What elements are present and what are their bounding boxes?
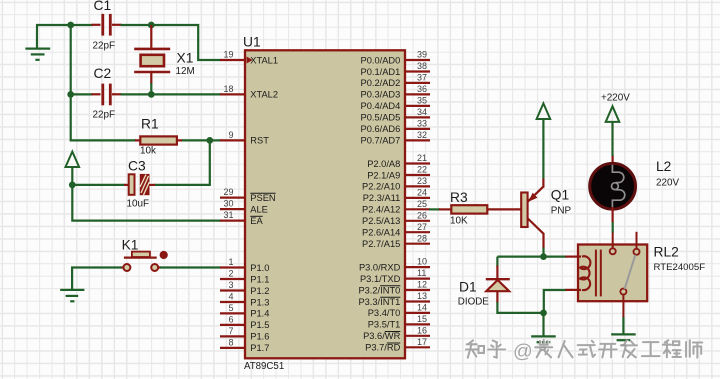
svg-text:36: 36	[417, 84, 427, 94]
node junction C1-left column	[67, 22, 74, 29]
svg-text:1: 1	[228, 257, 233, 267]
svg-text:31: 31	[223, 210, 233, 220]
svg-text:P2.6/A14: P2.6/A14	[362, 228, 400, 238]
pin 26 P2.5/A13 (right)	[362, 210, 430, 226]
wire relay switch to ground	[622, 317, 624, 335]
svg-text:16: 16	[417, 325, 427, 335]
wire ground to K1	[72, 268, 121, 291]
pin 31 EA (left)	[220, 210, 264, 226]
ground (transistor net)	[531, 336, 556, 347]
pin 22 P2.1/A9 (right)	[367, 165, 430, 181]
svg-text:EA: EA	[250, 216, 263, 226]
svg-text:30: 30	[223, 199, 233, 209]
svg-text:22: 22	[417, 165, 427, 175]
pin 10 P3.0/RXD (right)	[359, 257, 430, 273]
svg-text:21: 21	[417, 153, 427, 163]
svg-text:10: 10	[417, 257, 427, 267]
pin 12 P3.2/INT0 (right)	[358, 280, 430, 296]
pin 9 RST (left)	[220, 130, 269, 146]
svg-text:+220V: +220V	[601, 92, 630, 103]
pin 27 P2.6/A14 (right)	[362, 222, 430, 238]
svg-text:P2.3/A11: P2.3/A11	[363, 193, 401, 203]
svg-text:7: 7	[228, 326, 233, 336]
node junction collector/diode/coil	[540, 253, 547, 260]
ground (below K1)	[60, 290, 84, 301]
wire node to XTAL1 pin 19	[151, 25, 221, 60]
svg-text:10k: 10k	[140, 146, 156, 157]
pin 6 P1.5 (left)	[220, 315, 269, 331]
power arrow +220V	[601, 92, 630, 156]
svg-text:3: 3	[228, 280, 233, 290]
pin 15 P3.5/T1 (right)	[368, 314, 430, 330]
svg-text:5: 5	[228, 303, 233, 313]
svg-text:P0.4/AD4: P0.4/AD4	[361, 101, 401, 111]
svg-text:U1: U1	[243, 34, 261, 49]
wire relay coil bottom down to node	[544, 290, 567, 313]
svg-text:12: 12	[417, 280, 427, 290]
svg-text:32: 32	[417, 130, 427, 140]
svg-text:38: 38	[417, 61, 427, 71]
pin 4 P1.3 (left)	[220, 292, 269, 308]
svg-text:DIODE: DIODE	[458, 296, 489, 307]
svg-text:17: 17	[417, 337, 427, 347]
svg-text:P0.2/AD2: P0.2/AD2	[361, 78, 401, 88]
pin 24 P2.3/A11 (right)	[363, 188, 430, 204]
svg-text:P1.1: P1.1	[250, 274, 269, 284]
wire node to ground	[542, 313, 544, 336]
svg-text:P1.7: P1.7	[250, 343, 269, 353]
pin 34 P0.5/AD5 (right)	[361, 107, 430, 123]
ground (relay switch)	[611, 334, 636, 345]
wire RST node down to C3	[154, 140, 210, 185]
wire node to D1 and relay coil top	[497, 256, 566, 258]
transistor Q1 PNP	[521, 178, 571, 249]
capacitor C2	[92, 66, 122, 121]
pin 36 P0.3/AD3 (right)	[361, 84, 430, 100]
pin 23 P2.2/A10 (right)	[362, 176, 430, 192]
pin 25 P2.4/A12 (right)	[362, 199, 430, 215]
node junction C1/X1	[148, 22, 155, 29]
svg-text:P1.5: P1.5	[250, 320, 269, 330]
svg-text:18: 18	[223, 84, 233, 94]
svg-text:P2.1/A9: P2.1/A9	[367, 170, 400, 180]
pin 8 P1.7 (left)	[220, 338, 269, 354]
svg-text:P1.3: P1.3	[250, 297, 269, 307]
resistor R1	[135, 117, 183, 157]
svg-text:15: 15	[417, 314, 427, 324]
svg-text:P3.7/RD: P3.7/RD	[365, 343, 400, 353]
wire C2 row left	[70, 93, 93, 95]
wire ground to C1	[36, 24, 93, 26]
wire pin 25 to R3	[429, 208, 440, 210]
key K1 (push button)	[121, 238, 168, 272]
svg-text:K1: K1	[122, 238, 139, 253]
svg-text:P3.1/TXD: P3.1/TXD	[360, 274, 401, 284]
wire C3 node down to EA pin 31	[72, 185, 221, 221]
svg-text:10uF: 10uF	[127, 199, 150, 210]
svg-text:22pF: 22pF	[93, 110, 116, 121]
svg-text:P3.6/WR: P3.6/WR	[363, 331, 400, 341]
svg-text:XTAL1: XTAL1	[250, 55, 278, 65]
svg-text:P3.4/T0: P3.4/T0	[368, 308, 401, 318]
svg-text:29: 29	[223, 187, 233, 197]
pin 37 P0.2/AD2 (right)	[361, 73, 430, 89]
wire R1 to RST node	[182, 139, 211, 141]
svg-text:C3: C3	[128, 159, 146, 174]
watermark zhihu text	[466, 340, 702, 363]
svg-text:P1.4: P1.4	[250, 309, 269, 319]
svg-text:XTAL2: XTAL2	[250, 90, 278, 100]
node junction diode/coil/ground	[540, 310, 547, 317]
pin 14 P3.4/T0 (right)	[368, 303, 430, 319]
svg-text:@: @	[513, 341, 533, 363]
svg-text:P0.1/AD1: P0.1/AD1	[361, 67, 401, 77]
power arrow (Q1 emitter supply)	[537, 103, 551, 178]
pin 19 XTAL1 (left)	[220, 50, 278, 66]
svg-text:8: 8	[228, 338, 233, 348]
IC U1 AT89C51 body	[243, 34, 405, 372]
svg-text:PSEN: PSEN	[250, 193, 275, 203]
pin 33 P0.6/AD6 (right)	[361, 119, 430, 135]
svg-text:10K: 10K	[450, 215, 468, 226]
pin 3 P1.2 (left)	[220, 280, 269, 296]
svg-text:AT89C51: AT89C51	[244, 361, 284, 372]
crystal X1	[134, 25, 195, 84]
svg-text:6: 6	[228, 315, 233, 325]
pin 35 P0.4/AD4 (right)	[361, 96, 430, 112]
svg-text:35: 35	[417, 96, 427, 106]
svg-text:RL2: RL2	[654, 244, 679, 259]
svg-text:P1.0: P1.0	[250, 263, 269, 273]
lamp L2	[590, 155, 680, 223]
relay RL2	[566, 232, 706, 318]
node junction C2/X1 bottom	[148, 91, 155, 98]
pin 17 P3.7/RD (right)	[365, 337, 430, 353]
ground (top left)	[25, 25, 50, 60]
svg-text:P0.6/AD6: P0.6/AD6	[361, 124, 401, 134]
XTAL1 clock arrow	[247, 57, 253, 64]
svg-text:12M: 12M	[176, 66, 195, 77]
capacitor C3 (electrolytic)	[124, 159, 155, 210]
svg-text:33: 33	[417, 119, 427, 129]
svg-text:26: 26	[417, 210, 427, 220]
svg-text:R1: R1	[141, 117, 159, 132]
svg-text:28: 28	[417, 233, 427, 243]
pin 38 P0.1/AD1 (right)	[361, 61, 430, 77]
svg-text:ALE: ALE	[250, 204, 268, 214]
svg-text:P3.2/INT0: P3.2/INT0	[358, 285, 400, 295]
pin 30 ALE (left)	[220, 199, 268, 215]
svg-text:25: 25	[417, 199, 427, 209]
svg-text:PNP: PNP	[551, 205, 572, 216]
svg-text:Q1: Q1	[551, 188, 569, 203]
svg-text:24: 24	[417, 188, 427, 198]
svg-text:P3.3/INT1: P3.3/INT1	[358, 297, 400, 307]
pin 18 XTAL2 (left)	[220, 84, 278, 100]
svg-text:34: 34	[417, 107, 427, 117]
pin 21 P2.0/A8 (right)	[367, 153, 430, 169]
pin 13 P3.3/INT1 (right)	[358, 291, 430, 307]
pin 11 P3.1/TXD (right)	[360, 268, 430, 284]
svg-text:P2.4/A12: P2.4/A12	[362, 205, 400, 215]
wire lamp to relay contact	[612, 222, 614, 233]
svg-text:P0.5/AD5: P0.5/AD5	[361, 113, 401, 123]
svg-text:13: 13	[417, 291, 427, 301]
svg-text:D1: D1	[459, 279, 477, 294]
svg-text:P1.2: P1.2	[250, 286, 269, 296]
wire column down to RST row	[71, 94, 136, 140]
svg-text:2: 2	[228, 269, 233, 279]
svg-text:P0.7/AD7: P0.7/AD7	[361, 136, 401, 146]
pin 7 P1.6 (left)	[220, 326, 269, 342]
svg-text:P0.3/AD3: P0.3/AD3	[361, 90, 401, 100]
svg-text:23: 23	[417, 176, 427, 186]
node junction C3 left	[69, 182, 76, 189]
wire X1 to C2 row	[150, 83, 152, 95]
node junction RST	[206, 137, 213, 144]
pin 32 P0.7/AD7 (right)	[361, 130, 430, 146]
svg-text:P2.5/A13: P2.5/A13	[362, 216, 400, 226]
pin 16 P3.6/WR (right)	[363, 325, 430, 341]
svg-text:22pF: 22pF	[93, 40, 116, 51]
pin 2 P1.1 (left)	[220, 269, 269, 285]
svg-text:L2: L2	[656, 159, 671, 174]
svg-text:19: 19	[223, 50, 233, 60]
svg-text:11: 11	[417, 268, 426, 278]
svg-text:X1: X1	[177, 50, 194, 65]
svg-text:RTE24005F: RTE24005F	[654, 262, 706, 273]
svg-text:RST: RST	[250, 136, 269, 146]
resistor R3	[439, 190, 521, 227]
wire K1 to P1.0 pin 1	[160, 266, 221, 268]
svg-text:P2.7/A15: P2.7/A15	[362, 239, 400, 249]
svg-text:39: 39	[417, 50, 427, 60]
wire D1 to ground node	[497, 302, 544, 313]
svg-text:C2: C2	[94, 66, 112, 81]
svg-text:P1.6: P1.6	[250, 332, 269, 342]
pin 29 PSEN (left)	[220, 187, 276, 203]
wire node to RST pin 9	[210, 139, 221, 141]
svg-text:P3.5/T1: P3.5/T1	[368, 320, 401, 330]
svg-text:37: 37	[417, 73, 427, 83]
power arrow (VCC)	[66, 152, 80, 186]
pin 39 P0.0/AD0 (right)	[361, 50, 430, 66]
svg-text:P0.0/AD0: P0.0/AD0	[361, 55, 401, 65]
svg-text:R3: R3	[450, 190, 468, 205]
svg-text:4: 4	[228, 292, 233, 302]
svg-text:P2.2/A10: P2.2/A10	[362, 182, 400, 192]
diode D1	[458, 257, 510, 308]
svg-text:C1: C1	[94, 0, 112, 13]
wire C1 to node	[121, 24, 153, 26]
wire node to C3	[72, 184, 125, 186]
wire left vertical column	[70, 25, 72, 94]
svg-text:P3.0/RXD: P3.0/RXD	[359, 262, 401, 272]
svg-text:14: 14	[417, 303, 427, 313]
pin 1 P1.0 (left)	[220, 257, 269, 273]
wire Q1 collector down	[542, 248, 544, 258]
svg-text:9: 9	[228, 130, 233, 140]
wire C2 to XTAL2 pin 18	[121, 93, 222, 95]
node junction C2 left	[67, 91, 74, 98]
svg-text:P2.0/A8: P2.0/A8	[367, 159, 400, 169]
capacitor C1	[92, 0, 122, 51]
svg-text:27: 27	[417, 222, 427, 232]
svg-text:220V: 220V	[656, 177, 679, 188]
pin 28 P2.7/A15 (right)	[362, 233, 430, 249]
pin 5 P1.4 (left)	[220, 303, 269, 319]
